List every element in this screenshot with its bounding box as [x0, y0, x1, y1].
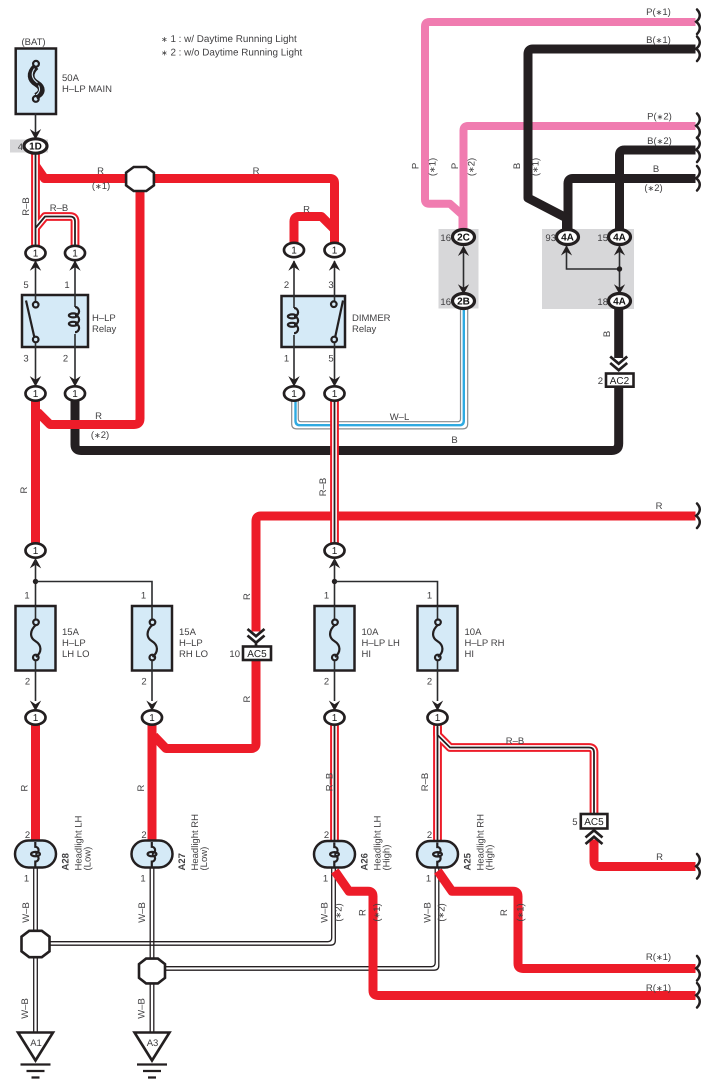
svg-text:H–LP: H–LP	[179, 638, 203, 649]
svg-text:R–B: R–B	[420, 773, 431, 791]
svg-text:R: R	[656, 852, 663, 863]
svg-text:1: 1	[149, 713, 155, 724]
junction octagon 2 (grounds)	[139, 959, 165, 984]
svg-text:1: 1	[72, 389, 78, 400]
wire R branch from A27 column up through connector AC5 pin 10	[154, 660, 256, 749]
wire R from right edge down to connector AC5 pin 10	[256, 516, 696, 632]
connector AC5 pin 10 box with chevron	[248, 629, 265, 647]
svg-text:B: B	[653, 164, 659, 175]
svg-text:HI: HI	[465, 649, 475, 660]
svg-text:1: 1	[33, 389, 39, 400]
svg-text:P(∗1): P(∗1)	[646, 7, 671, 18]
svg-text:(High): (High)	[485, 845, 496, 871]
svg-text:1: 1	[64, 280, 69, 291]
svg-text:W–B: W–B	[423, 902, 434, 923]
fuse 10A H-LP LH HI	[315, 606, 355, 711]
svg-text:(Low): (Low)	[83, 847, 94, 871]
svg-text:1: 1	[332, 389, 338, 400]
wire W-B from headlight A28 pin 1 to junction octagon 1	[34, 867, 38, 931]
wire R from fuse H-LP RH LO to headlight A27 pin 2	[148, 724, 157, 842]
fuse 10A H-LP RH HI	[418, 606, 458, 711]
ground A1	[18, 1033, 53, 1078]
svg-text:1: 1	[141, 591, 146, 602]
svg-text:R: R	[136, 784, 147, 791]
svg-text:1: 1	[435, 713, 441, 724]
svg-text:B: B	[602, 331, 613, 337]
svg-text:1: 1	[291, 389, 297, 400]
svg-text:1: 1	[33, 713, 39, 724]
wire W-L from dimmer relay pin 1 to connector 2B	[292, 308, 468, 429]
DIMMER relay coil pins 2-1	[293, 261, 295, 308]
svg-text:A3: A3	[147, 1038, 159, 1049]
svg-text:R–B: R–B	[50, 203, 68, 214]
connector AC2 pin 2 box with chevron	[610, 357, 627, 371]
connector ovals 1 (relay tops)	[26, 246, 46, 260]
svg-text:(∗2): (∗2)	[467, 158, 478, 176]
svg-text:R: R	[20, 784, 31, 791]
svg-text:Relay: Relay	[352, 324, 377, 335]
arrow and line from left fuse feed oval to low beam fuses	[30, 558, 41, 569]
svg-text:3: 3	[23, 354, 28, 365]
wire P(*1) from right edge to connector 2C	[425, 22, 696, 230]
svg-text:93: 93	[545, 233, 556, 244]
svg-text:(BAT): (BAT)	[21, 37, 45, 48]
headlight A26 (High)	[314, 841, 355, 868]
svg-text:R(∗1): R(∗1)	[646, 983, 671, 994]
svg-text:W–B: W–B	[137, 902, 148, 923]
svg-text:2B: 2B	[457, 297, 470, 308]
wire R(*1) from headlight A25 pin 1 to right edge	[438, 871, 696, 969]
wire W-B from junction octagon 1 to ground A1	[34, 958, 38, 1033]
svg-text:1D: 1D	[29, 142, 42, 153]
svg-text:W–B: W–B	[137, 998, 148, 1019]
svg-text:1: 1	[427, 591, 432, 602]
svg-text:2: 2	[25, 830, 30, 841]
svg-text:2: 2	[324, 677, 329, 688]
svg-text:W–B: W–B	[21, 902, 32, 923]
H-LP relay switch contacts pins 5-3	[35, 261, 37, 302]
svg-text:15A: 15A	[179, 627, 197, 638]
svg-text:∗ 2 : w/o Daytime Running Ligh: ∗ 2 : w/o Daytime Running Light	[161, 48, 302, 59]
svg-text:1: 1	[33, 249, 39, 260]
svg-text:2: 2	[284, 280, 289, 291]
svg-text:(∗2): (∗2)	[91, 430, 109, 441]
svg-text:1: 1	[332, 546, 338, 557]
svg-text:A1: A1	[30, 1038, 42, 1049]
svg-text:AC5: AC5	[247, 649, 267, 660]
svg-text:15A: 15A	[62, 627, 80, 638]
svg-text:10A: 10A	[362, 627, 380, 638]
wire R from fuse H-LP LH LO to headlight A28 pin 2	[31, 724, 40, 842]
svg-text:H–LP: H–LP	[92, 313, 116, 324]
svg-text:10: 10	[229, 649, 240, 660]
svg-text:1: 1	[332, 713, 338, 724]
H-LP relay box	[22, 295, 88, 347]
svg-text:4A: 4A	[561, 233, 574, 244]
svg-text:2: 2	[427, 677, 432, 688]
svg-text:2: 2	[427, 830, 432, 841]
svg-text:RH LO: RH LO	[179, 649, 208, 660]
svg-text:1: 1	[291, 246, 297, 257]
svg-text:2: 2	[25, 677, 30, 688]
wire B(*1) from right edge to connector 4A pin 93	[528, 49, 696, 230]
svg-text:LH LO: LH LO	[62, 649, 89, 660]
connector ovals 1 (fuse outputs)	[26, 710, 46, 724]
junction octagon top	[126, 167, 154, 191]
svg-text:R: R	[97, 166, 104, 177]
svg-text:5: 5	[572, 817, 577, 828]
svg-text:1: 1	[284, 354, 289, 365]
wire R-B from fuse H-LP LH HI to headlight A26 pin 2	[330, 725, 339, 842]
svg-text:4: 4	[18, 142, 23, 153]
svg-text:3: 3	[328, 280, 333, 291]
svg-text:1: 1	[324, 591, 329, 602]
svg-text:R–B: R–B	[325, 773, 336, 791]
connector AC5 pin 5 box with chevron	[581, 814, 608, 829]
H-LP relay coil pins 1-2	[74, 261, 76, 307]
svg-text:1: 1	[24, 591, 29, 602]
svg-text:(∗2): (∗2)	[644, 183, 662, 194]
fuse 15A H-LP RH LO	[132, 606, 172, 711]
headlight A28 (Low)	[15, 841, 56, 868]
svg-text:AC5: AC5	[584, 817, 604, 828]
wire R main feed from connector 1D to dimmer relay pin 3	[36, 166, 335, 245]
connector ovals 1 (relay bottoms)	[26, 386, 46, 400]
connector 2C/2B block background	[439, 229, 479, 309]
fuse 50A H-LP MAIN	[16, 49, 56, 115]
wire W-B from headlight A27 pin 1 to junction octagon 2	[150, 867, 154, 959]
wire R from H-LP relay pin 3 to fuse feed oval	[31, 400, 40, 544]
connector ovals 2C and 2B with arrow between	[463, 247, 465, 294]
svg-text:R(∗1): R(∗1)	[646, 952, 671, 963]
svg-text:B: B	[451, 435, 457, 446]
svg-text:A28: A28	[61, 853, 72, 870]
svg-text:10A: 10A	[465, 627, 483, 638]
junction octagon 1 (grounds)	[22, 931, 50, 957]
wire R(*1) from headlight A26 pin 1 to right edge	[335, 871, 696, 996]
ground A3	[135, 1033, 170, 1078]
svg-text:5: 5	[328, 354, 333, 365]
svg-text:(∗1): (∗1)	[372, 903, 383, 921]
svg-text:1: 1	[24, 874, 29, 885]
wire R from connector AC5 pin 5 to right edge	[594, 840, 696, 867]
svg-text:∗ 1 : w/ Daytime Running Light: ∗ 1 : w/ Daytime Running Light	[161, 34, 297, 45]
svg-text:A27: A27	[177, 853, 188, 870]
svg-text:R: R	[253, 166, 260, 177]
svg-text:2: 2	[63, 354, 68, 365]
wire R branch to dimmer relay pin 2	[294, 217, 335, 245]
wire R-B from connector 1D to H-LP relay pin 5 (with branch to pin 1)	[36, 152, 76, 246]
svg-text:(High): (High)	[382, 845, 393, 871]
arrow and line from right fuse feed oval to high beam fuses	[329, 558, 340, 569]
wire B (*2) from right edge to connector 4A pin 93	[568, 179, 696, 231]
svg-text:R: R	[656, 501, 663, 512]
wire R(*2) trunk from junction octagon to H-LP relay pin 3 column	[38, 183, 141, 425]
wire W-B from junction octagon 2 to ground A3	[150, 984, 154, 1033]
svg-text:R: R	[242, 593, 253, 600]
svg-text:P: P	[450, 163, 461, 169]
wire W-B from headlight A26 pin 1 to junction octagon 1	[49, 867, 335, 945]
svg-text:2: 2	[141, 677, 146, 688]
wire from fuse 50A to connector 1D	[35, 113, 37, 138]
svg-text:1: 1	[72, 249, 78, 260]
svg-text:4A: 4A	[613, 297, 626, 308]
svg-text:R: R	[95, 411, 102, 422]
svg-text:H–LP: H–LP	[62, 638, 86, 649]
arrows at DIMMER relay pins	[288, 260, 299, 271]
svg-text:R–B: R–B	[21, 197, 32, 215]
svg-text:W–B: W–B	[320, 902, 331, 923]
svg-text:R: R	[242, 695, 253, 702]
svg-text:R: R	[358, 909, 369, 916]
DIMMER relay switch contacts pins 3-5	[334, 261, 336, 302]
DIMMER relay box	[282, 296, 346, 347]
svg-text:(∗2): (∗2)	[437, 903, 448, 921]
wire W-B from headlight A25 pin 1 to junction octagon 2	[166, 867, 439, 970]
svg-text:(∗1): (∗1)	[92, 181, 110, 192]
svg-text:P(∗2): P(∗2)	[647, 112, 672, 123]
wire break symbols at right edge	[696, 10, 700, 35]
svg-text:R–B: R–B	[318, 478, 329, 496]
svg-text:(∗1): (∗1)	[428, 158, 439, 176]
svg-text:(∗1): (∗1)	[531, 158, 542, 176]
svg-text:1: 1	[33, 546, 39, 557]
wire B from H-LP relay pin 2 to connector AC2	[75, 387, 619, 451]
svg-text:(Low): (Low)	[199, 847, 210, 871]
connector 4A internal links	[567, 246, 620, 269]
svg-text:R–B: R–B	[506, 736, 524, 747]
arrow into 1D	[30, 129, 41, 140]
svg-text:1: 1	[140, 874, 145, 885]
svg-text:(∗2): (∗2)	[334, 903, 345, 921]
svg-text:A26: A26	[360, 853, 371, 870]
svg-text:P: P	[411, 163, 422, 169]
svg-text:R: R	[499, 909, 510, 916]
svg-text:R: R	[303, 205, 310, 216]
svg-text:B: B	[512, 163, 523, 169]
fuse 15A H-LP LH LO	[16, 606, 56, 711]
svg-text:H–LP MAIN: H–LP MAIN	[62, 84, 112, 95]
svg-text:5: 5	[23, 280, 28, 291]
svg-text:16: 16	[440, 233, 451, 244]
svg-text:B(∗1): B(∗1)	[646, 35, 671, 46]
svg-text:2: 2	[324, 830, 329, 841]
svg-text:15: 15	[597, 233, 608, 244]
wire R-B from dimmer relay pin 5 to high-beam fuse feed oval	[330, 400, 339, 544]
svg-text:B(∗2): B(∗2)	[647, 136, 672, 147]
svg-text:H–LP RH: H–LP RH	[465, 638, 505, 649]
svg-text:4A: 4A	[613, 233, 626, 244]
svg-text:W–L: W–L	[390, 412, 410, 423]
headlight A27 (Low)	[132, 841, 173, 868]
arrows at H-LP relay pins	[30, 260, 41, 271]
svg-text:1: 1	[323, 874, 328, 885]
svg-text:50A: 50A	[62, 73, 80, 84]
svg-text:1: 1	[332, 246, 338, 257]
wire B from connector 4A pin 18 to AC2 arrow	[614, 307, 623, 358]
connector ovals 1 (fuse feeds)	[26, 543, 46, 557]
connector ovals 4A x3	[557, 230, 579, 245]
svg-text:2C: 2C	[457, 233, 470, 244]
wire B(*2) from right edge to connector 4A pin 15	[620, 150, 696, 230]
wire R-B from fuse H-LP RH HI to headlight A25 pin 2 (with branch to AC5 pin 5)	[438, 725, 595, 842]
headlight A25 (High)	[417, 841, 458, 868]
svg-text:A25: A25	[463, 852, 474, 870]
svg-text:W–B: W–B	[20, 998, 31, 1019]
wire P(*2) from right edge to connector 2C	[464, 126, 696, 230]
svg-text:2: 2	[141, 830, 146, 841]
svg-text:18: 18	[597, 297, 608, 308]
svg-text:HI: HI	[362, 649, 372, 660]
svg-text:R: R	[19, 486, 30, 493]
connector 4A block background	[542, 229, 634, 309]
svg-text:Relay: Relay	[92, 324, 117, 335]
svg-text:16: 16	[440, 297, 451, 308]
svg-text:(∗1): (∗1)	[516, 903, 527, 921]
svg-text:H–LP LH: H–LP LH	[362, 638, 401, 649]
svg-text:1: 1	[426, 874, 431, 885]
svg-text:AC2: AC2	[610, 376, 630, 387]
svg-text:DIMMER: DIMMER	[352, 313, 391, 324]
svg-text:2: 2	[598, 376, 603, 387]
connector oval 1D	[24, 139, 47, 153]
connector 1D block background	[10, 140, 48, 153]
